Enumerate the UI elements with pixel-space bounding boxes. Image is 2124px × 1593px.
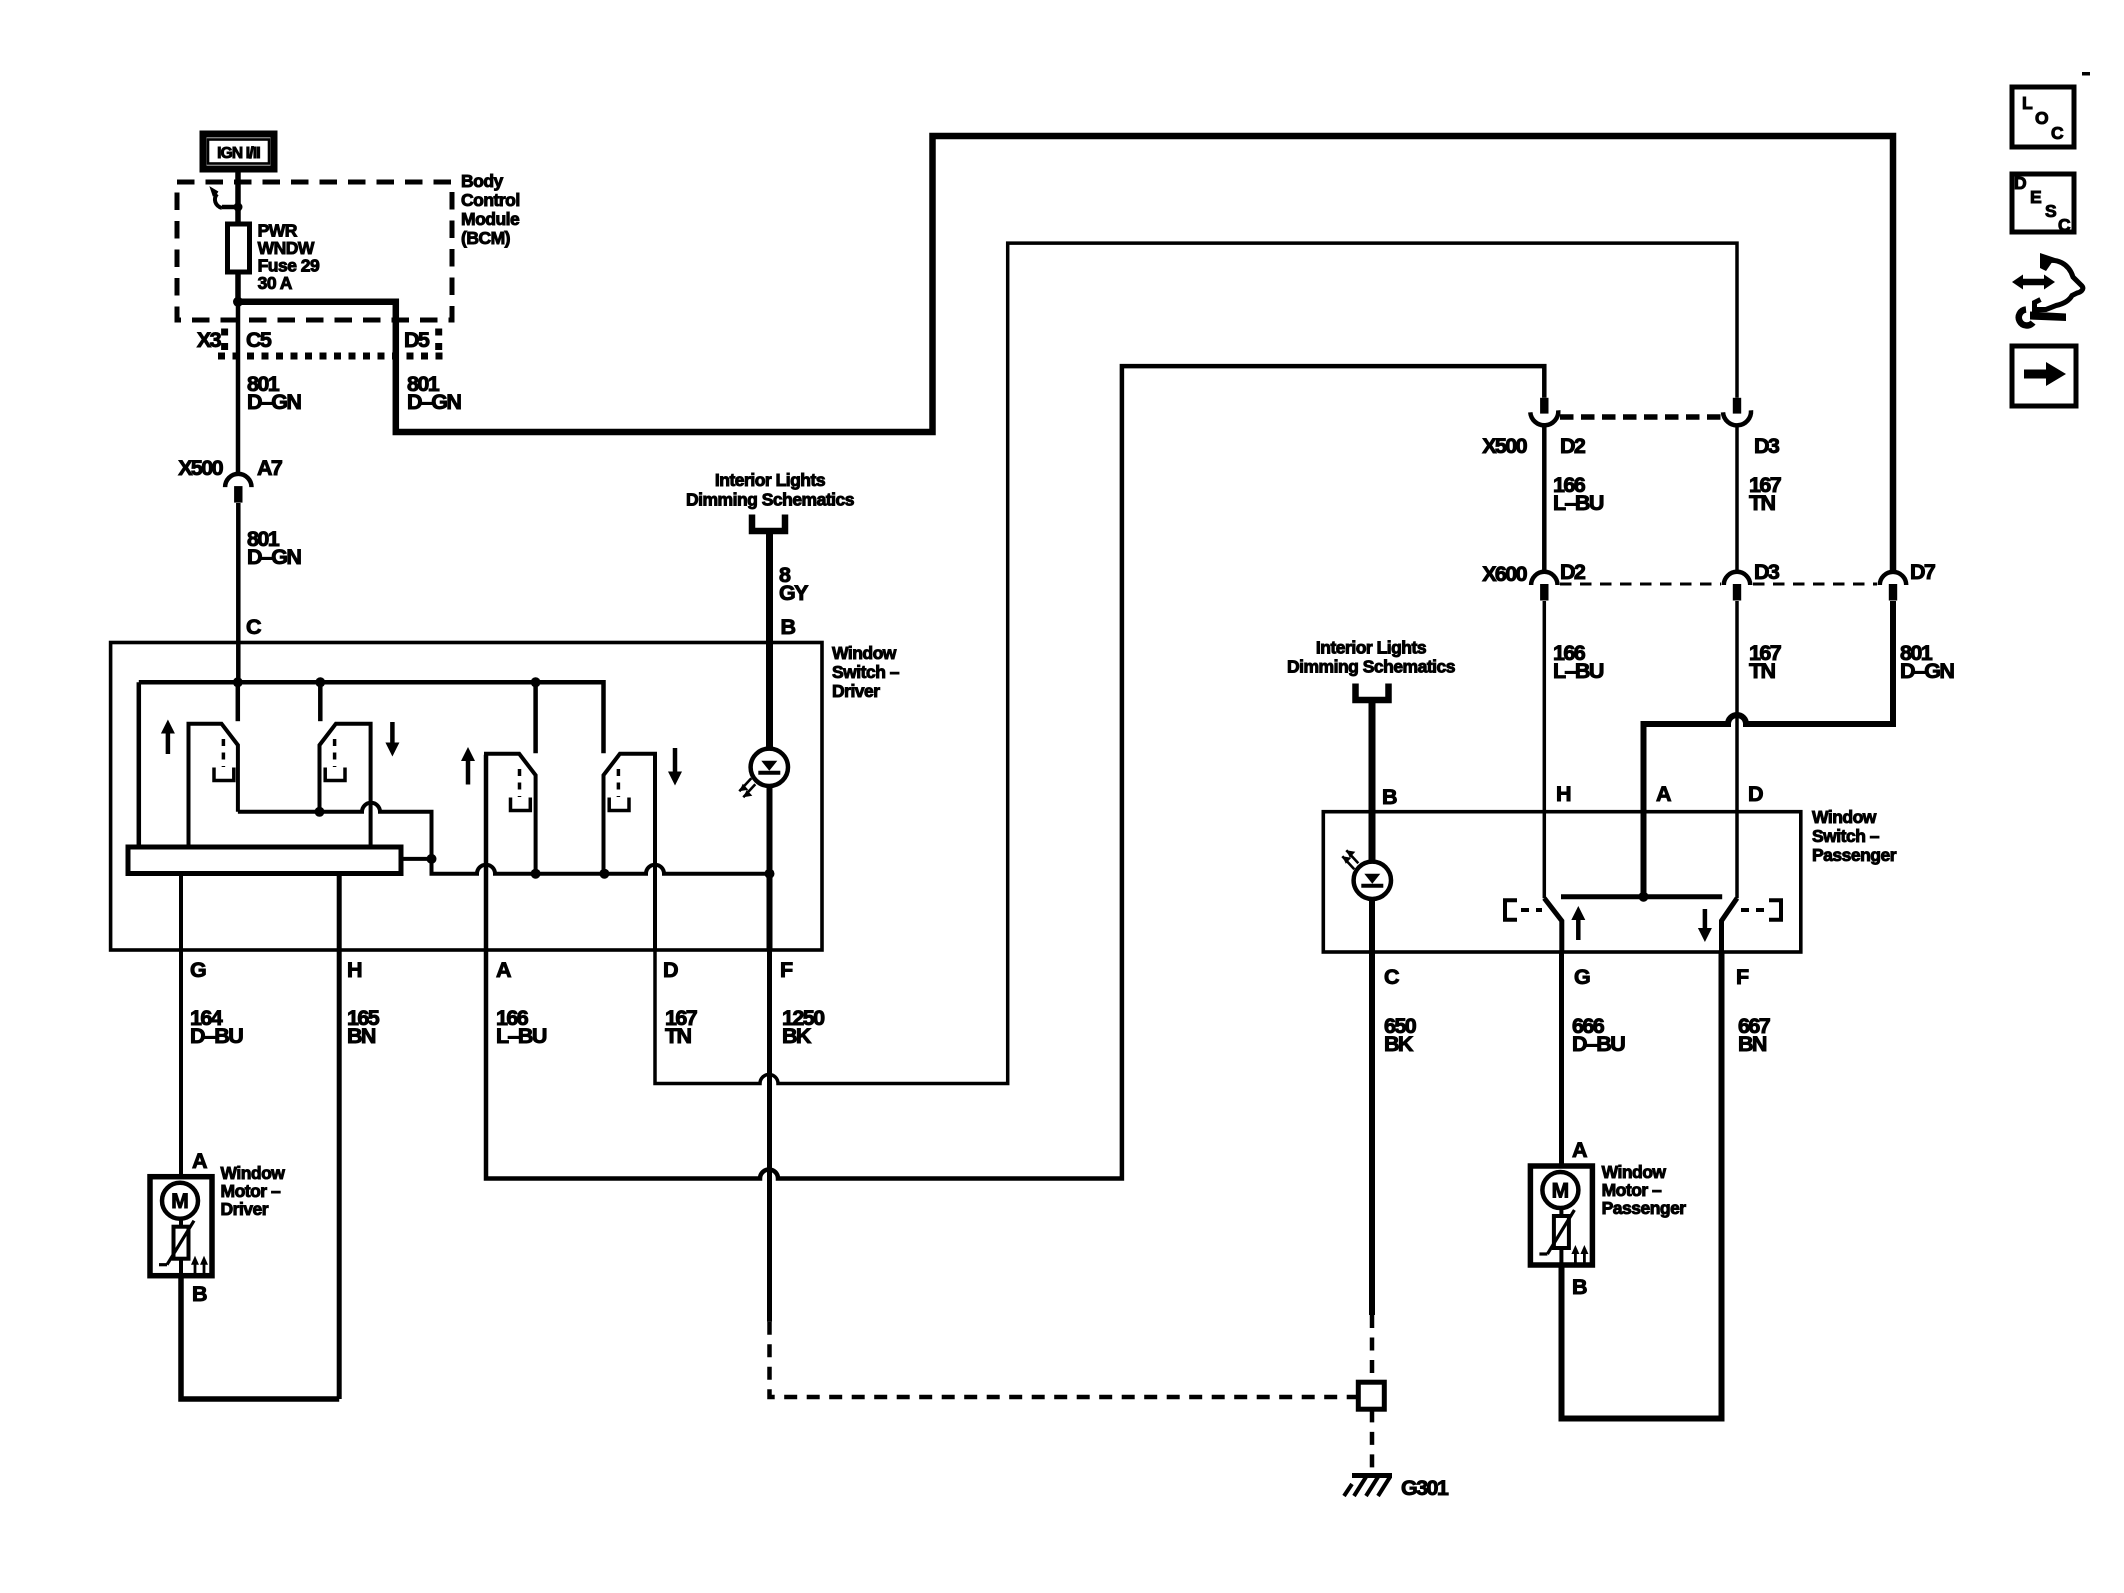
svg-text:L–BU: L–BU	[1553, 659, 1604, 683]
svg-text:A: A	[192, 1149, 207, 1173]
svg-text:X500: X500	[178, 456, 223, 480]
svg-text:A: A	[496, 958, 511, 982]
svg-text:C5: C5	[246, 328, 272, 352]
svg-text:F: F	[1736, 965, 1749, 989]
svg-text:Driver: Driver	[832, 681, 880, 701]
svg-text:F: F	[780, 958, 793, 982]
svg-text:L–BU: L–BU	[1553, 491, 1604, 515]
svg-text:Window: Window	[1602, 1162, 1667, 1182]
svg-text:C: C	[2058, 215, 2071, 235]
svg-text:C: C	[2051, 123, 2064, 143]
svg-text:S: S	[2045, 201, 2056, 221]
svg-text:C: C	[246, 615, 261, 639]
svg-text:A: A	[1572, 1138, 1587, 1162]
svg-text:B: B	[1572, 1275, 1587, 1299]
svg-text:IGN I/II: IGN I/II	[217, 145, 260, 162]
svg-text:G: G	[190, 958, 206, 982]
svg-text:BK: BK	[1384, 1032, 1414, 1056]
svg-text:BN: BN	[347, 1024, 376, 1048]
svg-text:Switch –: Switch –	[832, 662, 900, 682]
svg-text:D–BU: D–BU	[190, 1024, 243, 1048]
svg-text:30 A: 30 A	[258, 273, 293, 293]
svg-text:B: B	[1382, 785, 1397, 809]
svg-text:D2: D2	[1560, 560, 1586, 584]
svg-text:M: M	[171, 1190, 189, 1213]
svg-text:D–BU: D–BU	[1572, 1032, 1625, 1056]
svg-text:D: D	[2014, 173, 2026, 193]
svg-text:M: M	[1552, 1180, 1570, 1203]
svg-text:X3: X3	[197, 328, 222, 352]
svg-text:TN: TN	[1749, 491, 1776, 515]
svg-text:D–GN: D–GN	[247, 390, 301, 414]
svg-text:Window: Window	[832, 643, 897, 663]
svg-text:B: B	[781, 615, 796, 639]
svg-text:Interior Lights: Interior Lights	[1316, 638, 1427, 658]
svg-text:D–GN: D–GN	[407, 390, 461, 414]
svg-text:D: D	[663, 958, 678, 982]
svg-text:D7: D7	[1910, 560, 1936, 584]
svg-text:L: L	[2022, 93, 2033, 113]
svg-text:E: E	[2030, 187, 2041, 207]
svg-text:Driver: Driver	[221, 1199, 269, 1219]
svg-text:(BCM): (BCM)	[461, 228, 510, 248]
svg-text:D3: D3	[1754, 434, 1780, 458]
svg-text:C: C	[1384, 965, 1399, 989]
svg-text:Dimming Schematics: Dimming Schematics	[686, 490, 855, 510]
svg-text:G301: G301	[1401, 1476, 1449, 1500]
svg-text:TN: TN	[1749, 659, 1776, 683]
svg-text:D2: D2	[1560, 434, 1586, 458]
svg-text:H: H	[1556, 782, 1571, 806]
svg-text:Motor –: Motor –	[1602, 1180, 1662, 1200]
svg-text:D3: D3	[1754, 560, 1780, 584]
svg-text:X600: X600	[1482, 562, 1527, 586]
svg-text:Window: Window	[221, 1163, 286, 1183]
svg-text:D: D	[1748, 782, 1763, 806]
svg-text:B: B	[192, 1282, 207, 1306]
svg-text:H: H	[347, 958, 362, 982]
svg-text:D–GN: D–GN	[1900, 659, 1954, 683]
svg-text:Module: Module	[461, 209, 520, 229]
svg-text:G: G	[1574, 965, 1590, 989]
svg-text:Dimming Schematics: Dimming Schematics	[1287, 657, 1456, 677]
svg-text:Body: Body	[461, 171, 504, 191]
svg-text:A: A	[1656, 782, 1671, 806]
svg-text:L–BU: L–BU	[496, 1024, 547, 1048]
svg-text:O: O	[2035, 108, 2048, 128]
svg-text:Passenger: Passenger	[1602, 1198, 1687, 1218]
svg-text:TN: TN	[665, 1024, 692, 1048]
svg-text:BN: BN	[1738, 1032, 1767, 1056]
svg-text:Motor –: Motor –	[221, 1181, 281, 1201]
svg-text:Window: Window	[1812, 807, 1877, 827]
svg-text:X500: X500	[1482, 434, 1527, 458]
svg-text:A7: A7	[257, 456, 283, 480]
svg-text:Interior Lights: Interior Lights	[715, 470, 826, 490]
svg-text:BK: BK	[782, 1024, 812, 1048]
svg-text:GY: GY	[779, 581, 808, 605]
svg-text:D–GN: D–GN	[247, 545, 301, 569]
svg-text:Control: Control	[461, 190, 520, 210]
svg-text:Switch –: Switch –	[1812, 826, 1880, 846]
svg-text:Passenger: Passenger	[1812, 845, 1897, 865]
svg-text:D5: D5	[404, 328, 430, 352]
